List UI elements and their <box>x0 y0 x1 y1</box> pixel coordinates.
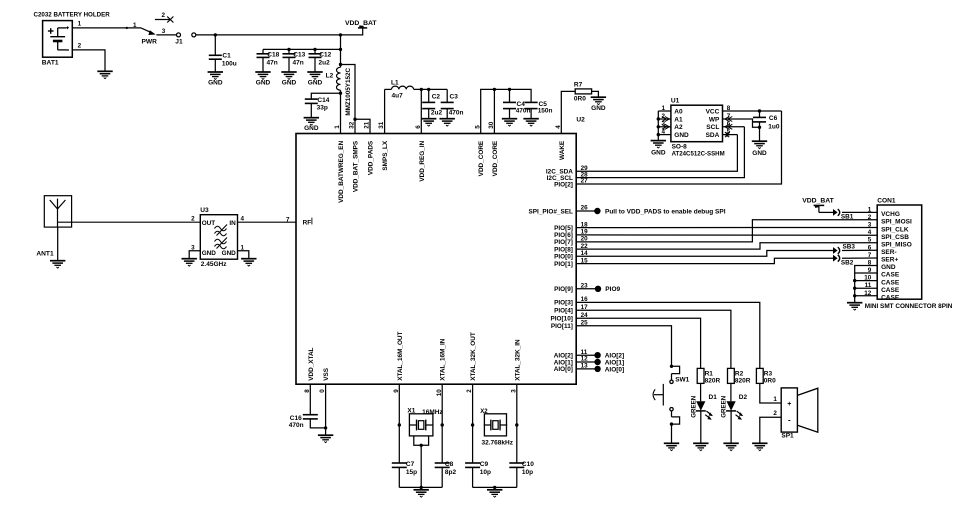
svg-text:4u7: 4u7 <box>392 93 404 100</box>
wire pin4 WAKE up to R7 <box>561 91 575 133</box>
svg-text:SB2: SB2 <box>841 260 854 267</box>
svg-text:OUT: OUT <box>202 220 216 227</box>
connector J1 open pin <box>177 33 181 37</box>
svg-text:1: 1 <box>133 22 137 29</box>
solder bridge SB3 <box>833 247 838 254</box>
U1 address tie line <box>657 111 659 140</box>
U1 input arrow pin3 <box>662 124 669 129</box>
ground under C6 <box>752 140 767 142</box>
wire X2 ground rail <box>473 486 517 488</box>
svg-text:SPI_CLK: SPI_CLK <box>881 226 909 233</box>
wire BAT1 pin2 <box>72 50 105 71</box>
svg-text:PIO[10]: PIO[10] <box>551 316 573 323</box>
ground under C12 <box>307 71 322 73</box>
svg-text:VCC: VCC <box>706 108 720 115</box>
svg-text:8p2: 8p2 <box>445 469 457 476</box>
junction U1 pin4 tie <box>657 133 660 136</box>
svg-text:C3: C3 <box>450 94 459 101</box>
node PIO9 <box>595 286 601 292</box>
U1 left pin 4 GND <box>658 134 671 136</box>
solder bridge SB2 <box>833 255 838 262</box>
svg-text:C14: C14 <box>317 97 329 104</box>
wire R1 to D1 <box>700 383 702 401</box>
svg-text:XTAL_32K_IN: XTAL_32K_IN <box>514 339 521 381</box>
svg-text:VDD_BAT_SMPS: VDD_BAT_SMPS <box>353 140 360 192</box>
IC U2 body <box>296 134 576 385</box>
svg-text:PIO[4]: PIO[4] <box>554 308 573 315</box>
ground under ANT1 <box>50 260 65 262</box>
speaker SP1 cone <box>797 388 817 432</box>
capacitor C14 <box>305 98 318 100</box>
svg-text:CASE: CASE <box>881 272 900 279</box>
svg-text:10p: 10p <box>480 469 491 476</box>
ground under CON1 <box>847 302 862 304</box>
wire X1 ground rail <box>399 486 442 488</box>
wire XTAL_32K_OUT down <box>472 384 474 463</box>
svg-text:PIO[7]: PIO[7] <box>554 239 573 246</box>
svg-text:GREEN: GREEN <box>721 395 728 418</box>
svg-text:SB1: SB1 <box>841 213 854 220</box>
svg-text:0R0: 0R0 <box>574 96 586 103</box>
wire switch pin3 to J1 <box>156 34 176 36</box>
junction X2 rail <box>493 486 496 489</box>
battery cell symbol <box>58 27 67 29</box>
junction pin6 <box>420 88 423 91</box>
svg-text:1: 1 <box>241 244 245 251</box>
svg-text:PWR: PWR <box>142 39 158 46</box>
ground U3 pin1 <box>241 258 256 260</box>
svg-text:C1: C1 <box>222 52 231 59</box>
svg-text:SPI_MISO: SPI_MISO <box>881 241 912 248</box>
ground after R7 <box>591 96 606 98</box>
X1 case ground bracket <box>414 436 429 445</box>
svg-text:VDD_PADS: VDD_PADS <box>368 140 375 175</box>
svg-text:30: 30 <box>488 121 495 129</box>
svg-text:C10: C10 <box>522 461 534 468</box>
wire CON1 pin 12 case stub <box>855 295 878 297</box>
junction case pin 10 <box>853 279 856 282</box>
svg-text:WP: WP <box>709 116 720 123</box>
capacitor C13 <box>288 49 290 53</box>
svg-text:-: - <box>788 415 791 424</box>
svg-text:3: 3 <box>868 222 872 229</box>
svg-text:XTAL_16M_OUT: XTAL_16M_OUT <box>397 331 404 380</box>
svg-text:SCL: SCL <box>706 124 719 131</box>
svg-text:SW1: SW1 <box>675 377 689 384</box>
ground under D2 <box>723 442 738 444</box>
U1 left pin 3 A2 <box>658 126 671 128</box>
svg-text:3: 3 <box>191 244 195 251</box>
ground under VSS <box>318 434 333 436</box>
ground under X1 <box>414 489 429 491</box>
svg-text:AIO[0]: AIO[0] <box>605 366 625 373</box>
resistor R3 <box>756 368 763 383</box>
wire CON1 pin 9 case stub <box>855 272 878 274</box>
node SPI_PIO#_SEL pull note <box>594 208 600 214</box>
wire branch down to pin32 <box>354 119 356 133</box>
svg-text:VSS: VSS <box>323 367 330 381</box>
wire PIO7 pin20 to CON1 pin2 <box>576 220 877 242</box>
svg-text:31: 31 <box>378 121 385 129</box>
svg-text:GND: GND <box>202 250 217 257</box>
wire VSS pin0 down <box>325 384 327 435</box>
svg-text:C13: C13 <box>293 52 305 59</box>
wire pin30 down <box>493 89 495 133</box>
solder bridge SB1 <box>833 209 838 216</box>
wire R7 to ground <box>592 91 599 96</box>
svg-text:U2: U2 <box>576 117 585 124</box>
wire I2C_SDA pin29 to U1 SDA <box>576 135 737 172</box>
wire U3 IN to RF pin7 <box>238 221 297 223</box>
svg-text:GND: GND <box>651 150 666 157</box>
antenna symbol <box>57 199 59 228</box>
IC U1 body <box>671 105 723 142</box>
ground under C4 <box>502 118 517 120</box>
junction X2 left <box>471 423 474 426</box>
svg-text:GND: GND <box>282 80 297 87</box>
LED D1 <box>696 401 705 410</box>
svg-text:PIO[1]: PIO[1] <box>554 261 573 268</box>
ground under D1 <box>693 442 708 444</box>
wire PIO6 pin19 to CON1 pin4 <box>576 234 877 236</box>
wire CON1 pin 10 case stub <box>855 280 878 282</box>
wire PIO0 pin14 to SB3 <box>576 251 833 257</box>
capacitor C5 <box>525 101 538 103</box>
svg-text:SER+: SER+ <box>881 257 898 264</box>
wire ANT1 down to ground <box>57 227 59 261</box>
U1 input arrow pin2 <box>662 117 669 122</box>
wire XTAL_16M_OUT down <box>398 384 400 463</box>
svg-text:AT24C512C-SSHM: AT24C512C-SSHM <box>672 151 725 158</box>
svg-text:4: 4 <box>868 229 872 236</box>
junction rail to VDD_BAT line <box>339 48 342 51</box>
svg-text:VDD_BAT: VDD_BAT <box>345 20 377 27</box>
svg-text:32: 32 <box>349 121 356 129</box>
wire CON1 pin 11 case stub <box>855 287 878 289</box>
wire U1 SCL pin6 stub <box>723 126 745 128</box>
svg-text:47n: 47n <box>293 60 304 67</box>
svg-text:150n: 150n <box>538 108 553 115</box>
svg-text:SO-8: SO-8 <box>672 143 688 150</box>
junction U1 pin3 tie <box>657 125 660 128</box>
wire PIO10 pin24 to R1 <box>576 318 700 368</box>
svg-text:CON1: CON1 <box>877 198 896 205</box>
junction C1 tap <box>214 33 217 36</box>
svg-text:VDD_CORE: VDD_CORE <box>492 140 499 176</box>
capacitor C8 <box>435 462 450 464</box>
svg-text:1: 1 <box>773 396 777 403</box>
junction C4 <box>508 88 511 91</box>
wire VDD_BAT down to L2 <box>340 35 342 67</box>
svg-text:D2: D2 <box>739 394 748 401</box>
junction case pin 12 <box>853 294 856 297</box>
svg-text:2: 2 <box>162 12 166 19</box>
svg-text:100u: 100u <box>222 60 237 67</box>
wire XTAL_32K_IN down <box>516 384 518 463</box>
wire BAT1 pin1 to switch <box>72 27 141 29</box>
svg-text:L1: L1 <box>391 79 399 86</box>
svg-text:RF: RF <box>303 220 312 227</box>
switch SW1 top bracket <box>672 366 680 373</box>
svg-text:J1: J1 <box>175 39 183 46</box>
wire L2 bottom to pin1 <box>340 90 342 133</box>
svg-text:VDD_REG_IN: VDD_REG_IN <box>419 140 426 181</box>
wire pin23 stub <box>576 288 598 290</box>
wire L2 top to pin32 branch <box>341 65 356 120</box>
ground under C14 <box>304 117 319 119</box>
node AIO[1] <box>594 359 600 365</box>
LED D2 <box>727 401 736 410</box>
switch SW1 actuator <box>662 384 664 406</box>
junction L2 top <box>339 63 342 66</box>
svg-text:15p: 15p <box>406 469 417 476</box>
switch SW1 bottom contact <box>670 408 673 411</box>
svg-text:PIO[8]: PIO[8] <box>554 246 573 253</box>
svg-text:1: 1 <box>662 105 666 112</box>
ground under C13 <box>281 71 296 73</box>
svg-text:33p: 33p <box>317 105 328 112</box>
crystal X1 box <box>409 414 433 436</box>
svg-text:Pull to VDD_PADS to enable deb: Pull to VDD_PADS to enable debug SPI <box>605 208 726 215</box>
svg-text:VDD_BAT: VDD_BAT <box>802 198 834 205</box>
junction pin30 <box>493 88 496 91</box>
svg-text:GREEN: GREEN <box>690 395 697 418</box>
svg-text:D1: D1 <box>709 394 718 401</box>
crystal X2 element <box>484 424 491 426</box>
svg-text:CASE: CASE <box>881 279 900 286</box>
svg-text:A2: A2 <box>674 124 683 131</box>
wire PIO4 pin17 to R2 <box>576 310 731 368</box>
svg-text:SMPS_LX: SMPS_LX <box>382 140 389 171</box>
svg-text:GND: GND <box>591 105 606 112</box>
inductor L1 <box>392 86 414 89</box>
svg-text:2u2: 2u2 <box>431 109 443 116</box>
speaker SP1 body <box>781 388 797 432</box>
junction C13 <box>287 48 290 51</box>
ground under C5 <box>523 118 538 120</box>
svg-text:GND: GND <box>222 250 237 257</box>
junction pin32/pin21 branch <box>353 118 356 121</box>
junction X1 right <box>441 423 444 426</box>
svg-text:2: 2 <box>78 43 82 50</box>
switch PWR throw 2 terminal <box>155 19 170 21</box>
svg-text:PIO[5]: PIO[5] <box>554 225 573 232</box>
svg-text:5: 5 <box>868 237 872 244</box>
wire ANT1 to U3 OUT <box>58 221 201 223</box>
ground under C2 <box>421 118 436 120</box>
capacitor C1 <box>214 35 216 55</box>
capacitor C10 <box>509 462 524 464</box>
svg-text:4: 4 <box>241 216 245 223</box>
svg-text:AIO[0]: AIO[0] <box>554 366 573 373</box>
resistor R2 <box>728 368 735 383</box>
junction C6 bottom <box>758 126 761 129</box>
antenna ANT1 box <box>44 196 71 227</box>
svg-text:2: 2 <box>773 410 777 417</box>
capacitor C3 <box>446 89 448 102</box>
switch SW1 top contact <box>670 380 673 383</box>
svg-text:GND: GND <box>304 125 319 132</box>
ground under BAT1 pin2 <box>97 70 112 72</box>
svg-text:X2: X2 <box>480 409 488 415</box>
wire U1 SDA pin5 stub <box>723 134 738 136</box>
svg-text:C18: C18 <box>267 52 279 59</box>
svg-text:CASE: CASE <box>881 294 900 301</box>
capacitor C16 <box>303 414 318 416</box>
wire SB2 to CON1 pin7 <box>842 257 877 259</box>
switch PWR arm <box>141 28 152 33</box>
svg-text:C9: C9 <box>480 461 489 468</box>
svg-text:C7: C7 <box>406 461 415 468</box>
svg-text:L2: L2 <box>326 73 334 80</box>
wire AIO stub AIO[2] <box>576 354 597 356</box>
wire pin5 rail <box>481 89 531 133</box>
wire pin6 down <box>420 89 422 133</box>
svg-text:C16: C16 <box>290 415 302 422</box>
wire PIO11 pin25 to SW1 <box>576 326 671 367</box>
svg-text:VDD_XTAL: VDD_XTAL <box>308 347 315 380</box>
svg-text:PIO[3]: PIO[3] <box>554 300 573 307</box>
wire D1 to ground <box>700 411 702 443</box>
svg-text:XTAL_16M_IN: XTAL_16M_IN <box>440 338 447 381</box>
wire U1 VCC pin8 <box>723 110 782 112</box>
wire to C14 <box>311 93 340 99</box>
svg-text:U1: U1 <box>671 98 680 105</box>
wire SB1 to CON1 pin1 <box>842 211 877 213</box>
svg-text:A0: A0 <box>674 108 683 115</box>
junction VSS C16 <box>324 426 327 429</box>
capacitor C7 <box>392 462 407 464</box>
ground under SW1 <box>664 442 679 444</box>
ground under C18 <box>255 71 270 73</box>
resistor R1 <box>697 368 704 383</box>
junction U1 pin2 tie <box>657 117 660 120</box>
capacitor C18 <box>262 49 264 53</box>
wire R3 to SP1 pin1 <box>760 383 781 403</box>
junction L2 bottom <box>339 92 342 95</box>
wire SB3 to CON1 pin6 <box>842 249 877 251</box>
capacitor C2 <box>428 89 430 102</box>
svg-text:4: 4 <box>555 125 562 129</box>
svg-text:C2032 BATTERY HOLDER: C2032 BATTERY HOLDER <box>34 12 111 19</box>
svg-text:ANT1: ANT1 <box>36 250 54 257</box>
U1 left pin 2 A1 <box>658 118 671 120</box>
wire SW1 to ground <box>671 424 673 443</box>
svg-text:U3: U3 <box>200 207 209 214</box>
wire CON1 GND bracket <box>855 266 878 303</box>
svg-text:PIO[11]: PIO[11] <box>551 323 573 330</box>
wire pin26 stub <box>576 210 597 212</box>
U3 pin1 wire <box>238 251 249 258</box>
svg-text:2u2: 2u2 <box>319 60 331 67</box>
filter U3 body <box>200 215 237 260</box>
ground under C1 <box>208 71 223 73</box>
svg-text:WAKE: WAKE <box>559 140 566 160</box>
svg-text:PIO[6]: PIO[6] <box>554 232 573 239</box>
svg-text:MMZ1005Y152C: MMZ1005Y152C <box>345 68 352 116</box>
svg-text:VCHG: VCHG <box>881 211 900 218</box>
U3 pin3 wire <box>189 251 200 258</box>
ground under U1 ties <box>651 140 666 142</box>
junction case pin 11 <box>853 287 856 290</box>
svg-text:XTAL_32K_OUT: XTAL_32K_OUT <box>470 332 477 381</box>
svg-text:1: 1 <box>334 125 341 129</box>
svg-text:47n: 47n <box>267 60 278 67</box>
junction X1 left <box>398 423 401 426</box>
svg-text:GND: GND <box>752 150 767 157</box>
U1 arrow pin5 <box>725 132 729 137</box>
svg-text:MINI SMT CONNECTOR 8PIN: MINI SMT CONNECTOR 8PIN <box>865 303 953 310</box>
svg-text:C8: C8 <box>445 461 454 468</box>
svg-text:SP1: SP1 <box>781 433 794 440</box>
junction C2 <box>427 88 430 91</box>
svg-text:820R: 820R <box>705 377 721 384</box>
wire U1 WP pin7 to C6 bottom <box>723 119 760 127</box>
junction SW1 bottom <box>670 422 673 425</box>
wire D2 to ground <box>730 411 732 443</box>
svg-text:BAT1: BAT1 <box>42 60 59 67</box>
capacitor C6 <box>759 111 761 117</box>
open circle rail start <box>192 33 196 37</box>
svg-text:C2: C2 <box>432 94 441 101</box>
crystal X2 box <box>484 414 506 436</box>
junction X2 right <box>515 423 518 426</box>
svg-text:GND: GND <box>308 80 323 87</box>
svg-text:PIO9: PIO9 <box>605 286 620 293</box>
svg-text:A1: A1 <box>674 116 683 123</box>
node AIO[2] <box>594 352 600 358</box>
svg-text:SDA: SDA <box>706 132 720 139</box>
wire L1 to C3 <box>414 88 448 90</box>
wire PIO8 pin22 to CON1 pin5 <box>576 243 877 249</box>
svg-text:SPI_MOSI: SPI_MOSI <box>881 219 912 226</box>
svg-text:GND: GND <box>256 80 271 87</box>
inductor L2 <box>337 67 341 90</box>
capacitor C4 <box>509 89 511 102</box>
wire cap bank rail <box>263 48 341 50</box>
wire branch to pin21 <box>355 119 370 133</box>
wire XTAL_16M_IN down <box>441 384 443 463</box>
ground under SP1 pin2 <box>752 442 767 444</box>
svg-text:6: 6 <box>415 125 422 129</box>
switch SW1 bottom bracket <box>671 411 673 417</box>
svg-text:2.45GHz: 2.45GHz <box>201 261 227 268</box>
U3 wave symbol upper <box>215 226 227 231</box>
svg-text:470n: 470n <box>289 422 304 429</box>
ground under X2 <box>487 489 502 491</box>
svg-text:VDD_CORE: VDD_CORE <box>478 140 485 176</box>
crystal X1 element <box>409 424 416 426</box>
ground U3 pin3 <box>182 258 197 260</box>
capacitor C12 <box>314 49 316 53</box>
svg-text:2: 2 <box>191 216 195 223</box>
node AIO[0] <box>594 366 600 372</box>
svg-text:GND: GND <box>674 132 689 139</box>
wire rail to power symbol <box>341 28 363 35</box>
capacitor C9 <box>465 462 480 464</box>
wire PIO2 pin27 to U1 VCC rail <box>576 111 781 184</box>
U1 left pin 1 A0 <box>658 110 671 112</box>
wire PIO5 pin18 to CON1 pin3 <box>576 227 877 229</box>
U1 arrow pin6 <box>725 124 732 129</box>
svg-text:2: 2 <box>868 214 872 221</box>
junction SW1 top <box>670 365 673 368</box>
resistor R7 <box>575 89 591 94</box>
svg-text:10p: 10p <box>522 469 533 476</box>
svg-text:X1: X1 <box>407 408 415 415</box>
svg-text:+: + <box>787 401 791 408</box>
wire R2 to D2 <box>730 383 732 401</box>
